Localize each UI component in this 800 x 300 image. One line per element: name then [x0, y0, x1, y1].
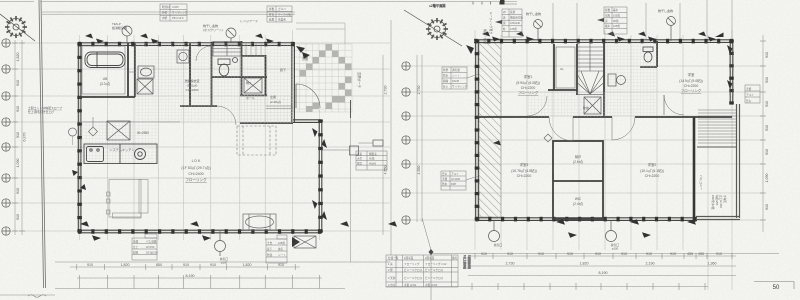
top circles with stems	[122, 26, 236, 43]
balcony rails	[696, 104, 740, 220]
wall posts right building	[474, 39, 733, 222]
wc south wall	[211, 76, 267, 78]
washroom floor texture	[605, 42, 657, 116]
right plan bottom base line	[386, 286, 708, 288]
hall south wall	[240, 122, 293, 124]
right top triangles	[727, 45, 733, 89]
living table	[243, 214, 276, 230]
corridor wall	[477, 116, 549, 118]
corridor floor texture 2F	[527, 92, 605, 117]
right wall upper	[729, 40, 731, 104]
washing machine	[177, 50, 189, 63]
right wall	[318, 120, 320, 232]
interior walls	[477, 41, 732, 219]
washroom door arc	[196, 46, 211, 61]
wic door arc	[527, 96, 547, 116]
washroom closet	[137, 79, 153, 94]
grid stubs above top wall right plan	[552, 3, 554, 39]
stair east wall	[603, 42, 605, 117]
left vertical dim numbers	[16, 52, 769, 220]
compass left	[0, 14, 35, 41]
bathtub	[85, 52, 125, 68]
top wall triangle	[715, 33, 724, 38]
kitchen labels	[109, 131, 149, 152]
right plan stepped table 1	[495, 9, 522, 37]
right wall window lines	[730, 51, 733, 96]
window triangles right wall	[312, 128, 327, 220]
wc2 door arc	[664, 95, 684, 115]
right plan window triangles bottom	[466, 45, 696, 238]
left total ticks	[80, 275, 320, 289]
entrance step lines	[266, 105, 293, 107]
top wall	[78, 42, 294, 44]
kitchen top line	[79, 121, 180, 123]
scale label 50	[754, 282, 794, 292]
road edge lines	[42, 11, 295, 13]
hall east wall	[265, 55, 267, 95]
wall y121	[293, 119, 321, 121]
closet walls	[553, 44, 555, 90]
table leader + diamond	[422, 218, 434, 300]
left wall	[77, 42, 79, 232]
left plan bottom base line	[55, 288, 345, 290]
bath east wall	[127, 43, 129, 97]
bedroom3 label	[511, 162, 536, 178]
porch corner triangles	[296, 46, 305, 53]
right plan left table 1	[442, 67, 478, 89]
grid bubbles left column	[2, 39, 10, 235]
vanity	[138, 66, 154, 78]
left vertical dim lines	[14, 40, 16, 235]
washroom label	[184, 78, 199, 92]
master bedroom label	[679, 72, 703, 93]
entrance door arc	[296, 84, 320, 108]
bath room inner	[82, 46, 125, 94]
balcony note text	[711, 195, 727, 210]
left plan bottom table 2	[266, 235, 287, 263]
site boundary double line left	[39, 0, 44, 288]
corridor door arc	[217, 106, 236, 125]
tick dashes below top line	[472, 2, 474, 5]
bedroom-balcony wall	[693, 117, 696, 222]
top leader texts	[112, 18, 258, 32]
right plan far right vertical dim	[762, 35, 764, 232]
interior walls	[79, 41, 293, 123]
roof hatch band	[479, 43, 501, 217]
LDK label	[181, 159, 210, 182]
left wall window lines	[78, 168, 81, 190]
hall north wall	[242, 55, 266, 57]
long mid line	[430, 253, 779, 255]
bottom left corner line	[0, 294, 55, 296]
wall posts left building	[77, 42, 323, 234]
storage walls	[553, 141, 603, 219]
right plan bottom dim line 2	[468, 265, 736, 267]
bottom wall	[476, 217, 697, 219]
bedroom1 label	[516, 74, 540, 95]
title 1F	[500, 0, 505, 5]
right plan vertical module grid	[474, 30, 476, 250]
kitchen floor texture	[80, 122, 158, 164]
left wall	[475, 40, 477, 220]
corridor diamond	[544, 134, 552, 142]
bath south wall	[79, 96, 135, 98]
bath door	[128, 71, 135, 73]
kitchen X box	[107, 121, 130, 140]
right plan bottom dim line 3	[468, 275, 736, 277]
corridor floor texture	[135, 43, 293, 123]
exterior hood boxes	[321, 140, 383, 155]
outer walls	[474, 40, 733, 221]
stair west wall	[211, 43, 213, 106]
monoire south wall	[240, 95, 267, 97]
bedroom2 label	[640, 162, 664, 178]
window triangles top wall	[85, 34, 274, 44]
meter circle	[69, 128, 77, 136]
right far dim ticks	[760, 41, 766, 220]
left plan bottom table 1	[132, 234, 157, 260]
left plan horizontal grid lines	[8, 42, 390, 44]
washbasin 2F	[608, 74, 626, 86]
right plan stepped table 2	[597, 7, 627, 34]
stair void X box	[584, 97, 601, 114]
left bottom row ticks	[77, 264, 295, 270]
stairs 2F	[578, 43, 604, 95]
left plan top table 2	[267, 6, 292, 22]
left note text	[28, 106, 62, 114]
toilet 1F	[218, 58, 238, 77]
bottom wall	[78, 229, 322, 231]
right plan left table 2	[441, 171, 478, 190]
window triangles bottom wall	[80, 221, 397, 240]
left plan bottom dim line 1	[70, 266, 300, 268]
hall labels	[246, 67, 286, 104]
porch tile steps	[293, 23, 352, 118]
tv unit	[292, 236, 316, 248]
left column ticks	[12, 43, 25, 231]
compass right	[404, 10, 462, 46]
monoire X box	[244, 78, 262, 93]
right bottom row ticks	[475, 253, 732, 259]
stairs 1F	[213, 42, 241, 57]
toilet 2F	[643, 47, 653, 62]
top wall	[474, 39, 733, 41]
left plan right table	[356, 151, 387, 170]
bottom middle big table	[386, 255, 458, 287]
bedroom door arcs	[549, 117, 573, 141]
wc walls	[656, 41, 658, 67]
balcony deck lines	[697, 146, 737, 148]
table micro text	[133, 5, 754, 287]
right plan left vertical dims	[416, 55, 418, 222]
right plan horizontal grid lines	[410, 65, 763, 67]
entrance label	[302, 56, 362, 88]
right total ticks	[472, 283, 705, 290]
closet 2F	[556, 47, 575, 88]
top border line far	[0, 1, 34, 3]
entrance floor texture	[240, 95, 293, 123]
left plan top table 1	[160, 4, 187, 21]
porch west wall	[291, 42, 293, 122]
left plan bottom dim line 2	[77, 277, 322, 279]
washroom south wall	[180, 105, 217, 107]
right plan far right table	[745, 85, 760, 103]
left plan right-side vertical dim	[382, 55, 384, 235]
kitchen counter	[84, 144, 157, 164]
left plan vertical module grid	[79, 35, 81, 240]
closet wall	[134, 43, 136, 97]
dining table dashed	[237, 126, 276, 155]
dimension ticks and numbers	[12, 41, 766, 290]
storage labels	[573, 154, 583, 206]
outer walls	[78, 42, 322, 233]
UB label	[100, 77, 110, 86]
vertical line right of left plan	[350, 118, 352, 262]
top circles with stems right plan	[534, 17, 676, 42]
balcony outer rail	[739, 104, 741, 218]
bottom circles with stems	[489, 220, 617, 242]
bottom circle symbol	[215, 231, 226, 256]
stair east wall	[241, 41, 243, 95]
kitchen diamond	[89, 127, 98, 136]
grid bubbles right column	[402, 62, 410, 224]
washroom east wall	[189, 43, 191, 106]
upper stair treads	[246, 43, 261, 55]
right plan bottom dim line 1	[468, 255, 736, 257]
right plan window triangles top	[482, 32, 716, 42]
sofa set	[107, 180, 149, 219]
dimension numbers	[87, 252, 722, 278]
